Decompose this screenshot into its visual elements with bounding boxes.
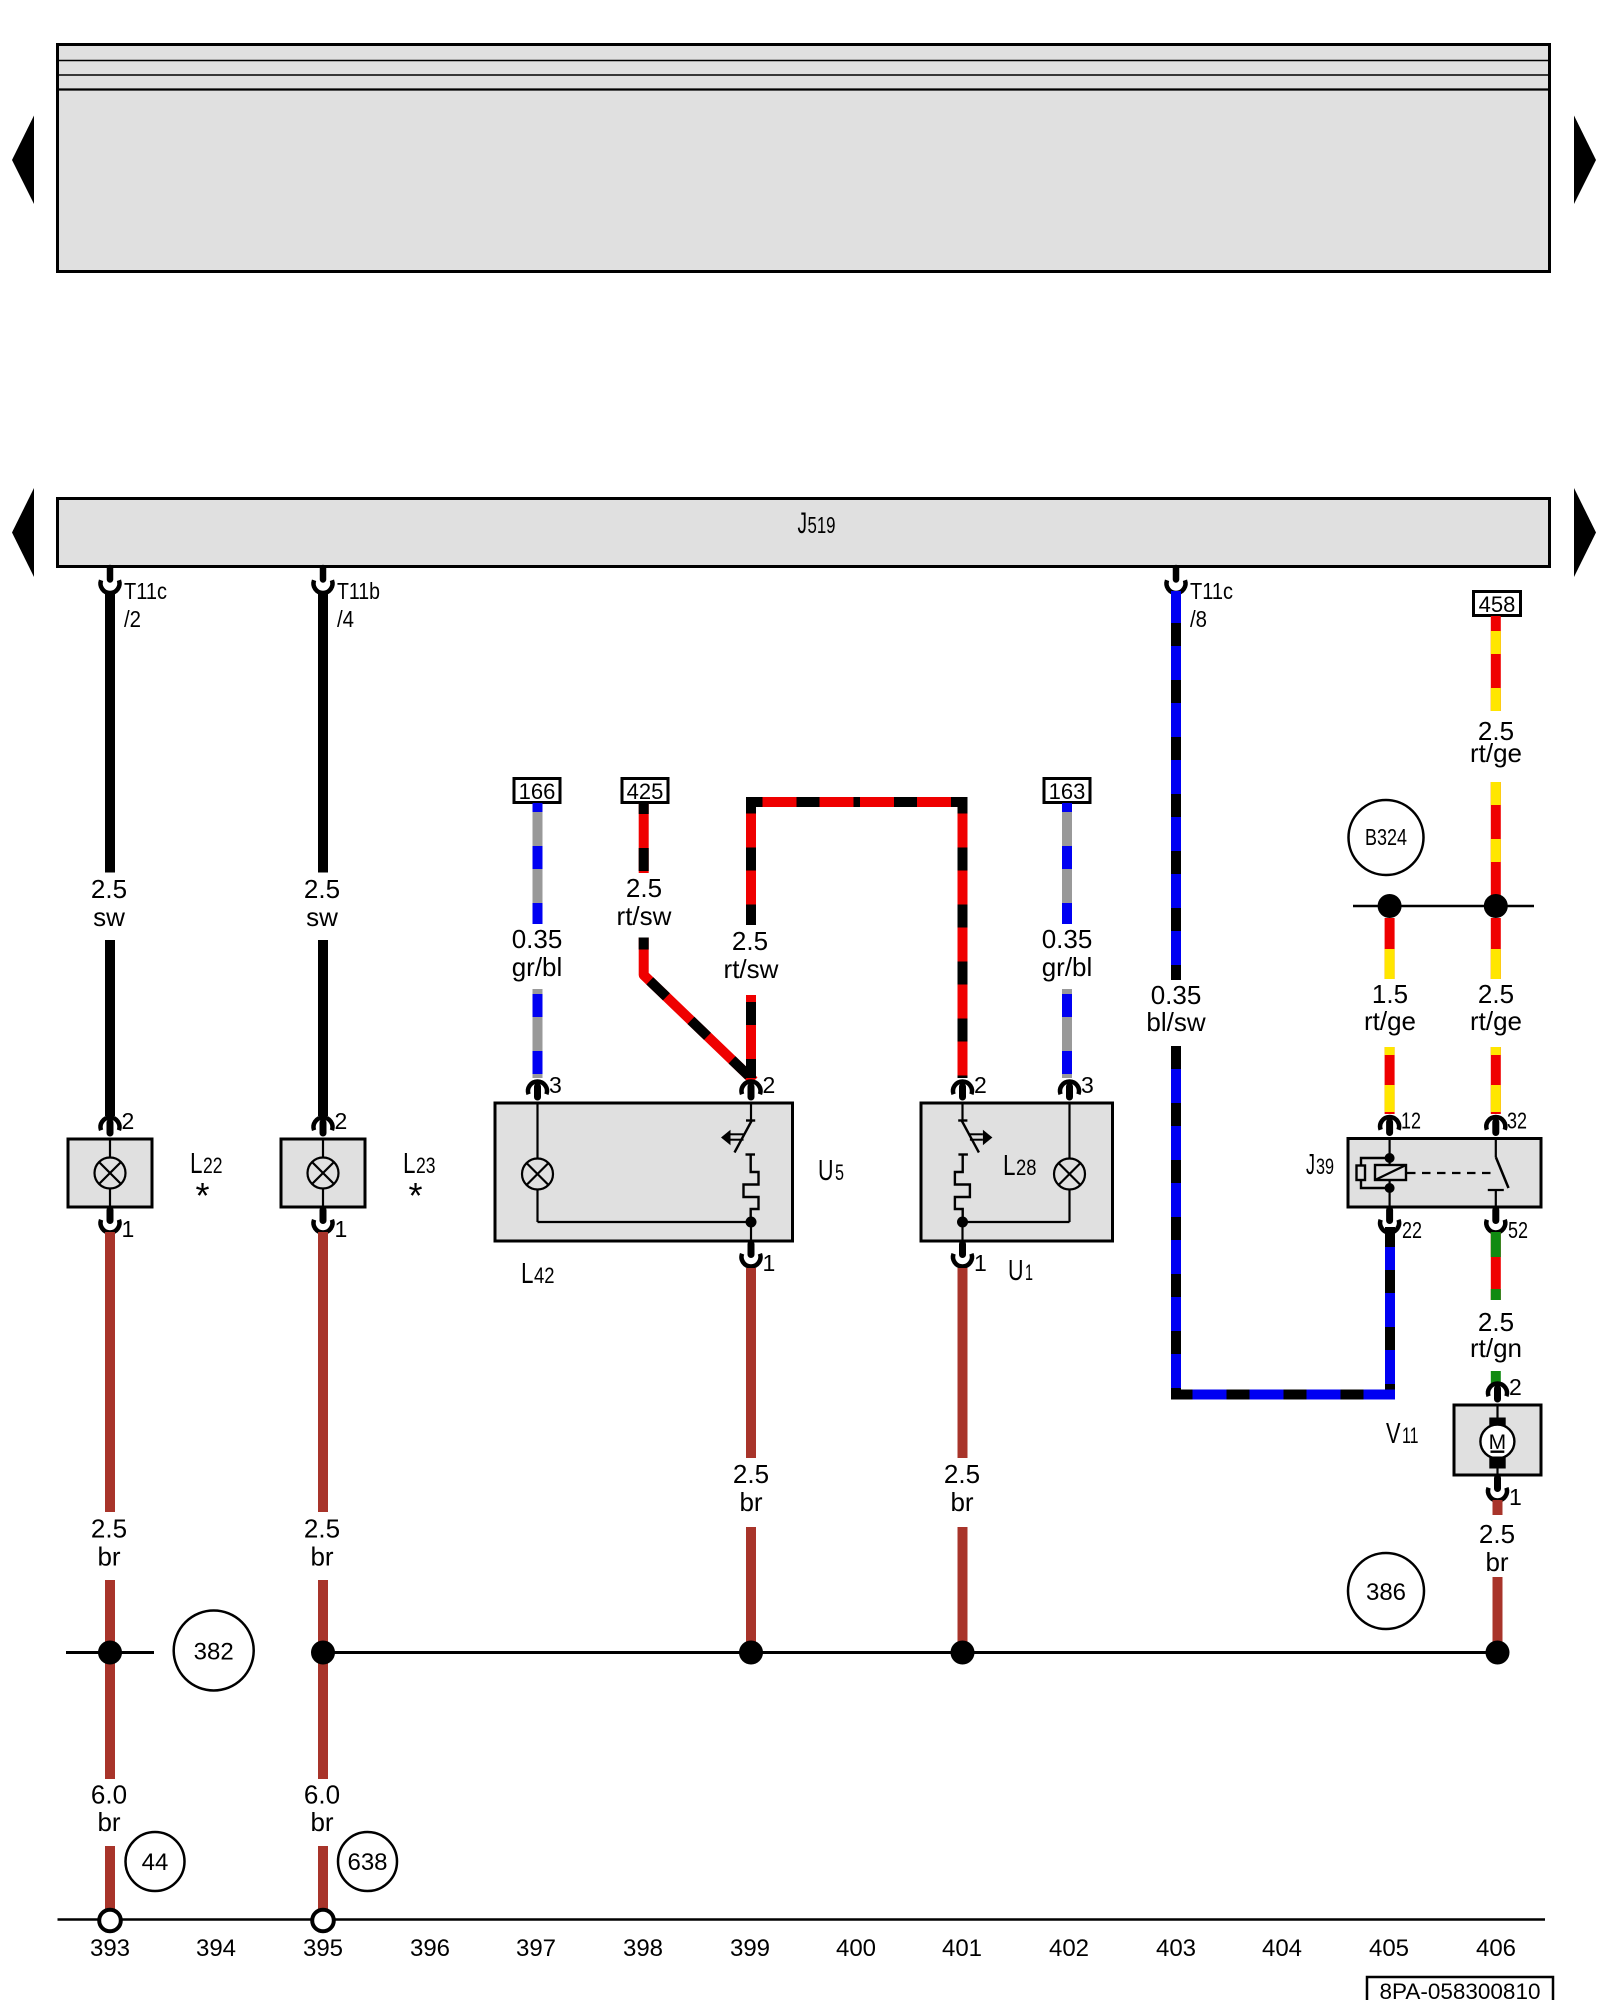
connector T11b/4 at bus <box>314 568 381 632</box>
wire 2.5 rt/sw loop U5 pin2 lower leg <box>724 926 779 1078</box>
svg-text:1: 1 <box>1509 1484 1522 1510</box>
connector T11c/8 at bus <box>1167 568 1234 632</box>
svg-text:1: 1 <box>122 1216 135 1242</box>
node 44 <box>126 1832 185 1891</box>
svg-text:44: 44 <box>142 1849 169 1876</box>
wire 2.5 br from V11 pin1 <box>1479 1500 1515 1652</box>
U1 internal wire <box>963 1221 1070 1223</box>
U1 pin 1 <box>953 1244 987 1276</box>
svg-text:1: 1 <box>1025 1260 1033 1285</box>
V11 pin 2 <box>1488 1374 1522 1400</box>
svg-text:3: 3 <box>549 1072 562 1098</box>
diagram number box <box>1367 1977 1553 2000</box>
svg-text:396: 396 <box>410 1935 450 1962</box>
svg-text:/2: /2 <box>124 606 141 632</box>
svg-text:gr/bl: gr/bl <box>512 952 563 982</box>
page arrow right header <box>1574 116 1596 205</box>
svg-text:1: 1 <box>974 1250 987 1276</box>
svg-text:2: 2 <box>974 1072 987 1098</box>
svg-text:2: 2 <box>122 1108 135 1134</box>
svg-text:br: br <box>950 1487 973 1517</box>
svg-text:393: 393 <box>90 1935 130 1962</box>
svg-text:L: L <box>521 1258 534 1290</box>
track baseline <box>58 1918 1546 1921</box>
wire 2.5 br from U5 pin1 <box>733 1268 769 1652</box>
U5 internal junction <box>746 1217 757 1228</box>
svg-text:2: 2 <box>1509 1374 1522 1400</box>
wire 2.5 br from U1 pin1 <box>944 1268 980 1652</box>
svg-text:L: L <box>1003 1150 1016 1182</box>
boxed node 425 <box>622 779 668 805</box>
svg-text:404: 404 <box>1262 1935 1302 1962</box>
wire 1.5 rt/ge to J39 pin12 <box>1364 918 1416 1114</box>
U5 pin 3 <box>528 1072 562 1098</box>
track numbers <box>90 1935 1516 1962</box>
wire 2.5 rt/ge from 458 <box>1470 616 1522 906</box>
J39 actuation dashed link <box>1407 1172 1497 1174</box>
junction dot 406 <box>1486 1641 1510 1665</box>
svg-text:br: br <box>310 1807 333 1837</box>
lighter unit U5 / L42 box <box>495 1103 793 1241</box>
junction dot 393 <box>98 1641 122 1665</box>
svg-text:400: 400 <box>836 1935 876 1962</box>
L22 pin 2 <box>101 1108 135 1134</box>
svg-text:406: 406 <box>1476 1935 1516 1962</box>
svg-text:2.5: 2.5 <box>733 1459 769 1489</box>
svg-text:403: 403 <box>1156 1935 1196 1962</box>
svg-text:U: U <box>818 1155 834 1187</box>
svg-text:2: 2 <box>763 1072 776 1098</box>
connector T11c/2 at bus <box>101 568 168 632</box>
svg-text:T11b: T11b <box>337 578 380 604</box>
svg-text:2.5: 2.5 <box>91 874 127 904</box>
svg-text:5: 5 <box>835 1160 844 1185</box>
svg-text:638: 638 <box>347 1849 387 1876</box>
J39 coil <box>1357 1139 1407 1208</box>
svg-text:2.5: 2.5 <box>626 873 662 903</box>
svg-text:rt/sw: rt/sw <box>617 901 672 931</box>
svg-text:sw: sw <box>306 902 338 932</box>
wire 2.5 rt/sw from 425 to U5 pin2 <box>617 803 754 1081</box>
U5 lighter element symbol <box>721 1103 759 1222</box>
wire 0.35 gr/bl from 163 to L28 pin3 <box>1042 803 1093 1078</box>
svg-text:rt/sw: rt/sw <box>724 954 779 984</box>
svg-text:394: 394 <box>196 1935 236 1962</box>
junction line B324 <box>1353 905 1534 908</box>
node 638 <box>338 1832 397 1891</box>
svg-text:2.5: 2.5 <box>91 1514 127 1544</box>
wire 2.5 rt/gn from J39 pin52 to V11 <box>1470 1232 1522 1384</box>
svg-text:br: br <box>97 1542 120 1572</box>
svg-text:39: 39 <box>1316 1154 1334 1179</box>
U1 pin 3 <box>1060 1072 1094 1098</box>
lamp L22 <box>68 1139 152 1207</box>
wire 2.5 rt/sw loop from U5 pin2 to L28 pin2 <box>751 802 963 1078</box>
junction dot right <box>1484 894 1508 918</box>
junction dot 395 <box>311 1641 335 1665</box>
header panel <box>58 45 1550 272</box>
svg-text:0.35: 0.35 <box>512 924 563 954</box>
page arrow right bus <box>1574 488 1596 577</box>
boxed node 458 <box>1474 592 1521 618</box>
svg-text:402: 402 <box>1049 1935 1089 1962</box>
svg-text:gr/bl: gr/bl <box>1042 952 1093 982</box>
svg-text:rt/ge: rt/ge <box>1470 1006 1522 1036</box>
control unit J519 bus bar <box>58 499 1550 567</box>
svg-text:*: * <box>408 1175 422 1216</box>
motor V11 box <box>1454 1405 1541 1475</box>
junction dot left <box>1378 894 1402 918</box>
svg-text:0.35: 0.35 <box>1042 924 1093 954</box>
svg-text:52: 52 <box>1508 1217 1528 1243</box>
svg-text:2.5: 2.5 <box>944 1459 980 1489</box>
svg-text:bl/sw: bl/sw <box>1146 1007 1205 1037</box>
svg-text:28: 28 <box>1016 1155 1037 1180</box>
L23 pin 1 <box>314 1210 348 1242</box>
ground symbol 393 <box>99 1910 121 1932</box>
V11 pin 1 <box>1488 1478 1522 1510</box>
J39 pin 52 <box>1486 1210 1528 1243</box>
junction dot 399 <box>739 1641 763 1665</box>
svg-text:1: 1 <box>335 1216 348 1242</box>
J39 switch contact <box>1488 1139 1509 1208</box>
svg-text:0.35: 0.35 <box>1151 980 1202 1010</box>
wire 2.5 sw to L22 <box>91 591 127 1116</box>
svg-text:2.5: 2.5 <box>1479 1519 1515 1549</box>
page arrow left bus <box>12 488 34 577</box>
node 386 <box>1348 1553 1424 1629</box>
wire 0.35 bl/sw from T11c/8 <box>1146 591 1395 1395</box>
svg-text:1.5: 1.5 <box>1372 979 1408 1009</box>
J39 pin 22 <box>1380 1210 1422 1243</box>
svg-text:42: 42 <box>534 1263 555 1288</box>
boxed node 163 <box>1044 779 1090 805</box>
node 382 <box>174 1611 254 1691</box>
svg-text:J: J <box>1306 1149 1315 1181</box>
svg-text:458: 458 <box>1479 592 1516 617</box>
svg-text:6.0: 6.0 <box>304 1780 340 1810</box>
svg-text:/8: /8 <box>1190 606 1207 632</box>
svg-text:386: 386 <box>1366 1579 1406 1606</box>
svg-text:2.5: 2.5 <box>1478 979 1514 1009</box>
svg-text:398: 398 <box>623 1935 663 1962</box>
lamp L23 <box>281 1139 365 1207</box>
svg-text:rt/gn: rt/gn <box>1470 1333 1522 1363</box>
U5 pin 1 <box>742 1244 776 1276</box>
svg-text:B324: B324 <box>1365 824 1407 850</box>
U1 lamp symbol L28 <box>1054 1103 1085 1222</box>
page arrow left header <box>12 116 34 205</box>
svg-text:T11c: T11c <box>1190 578 1233 604</box>
svg-text:425: 425 <box>627 779 664 804</box>
svg-text:3: 3 <box>1081 1072 1094 1098</box>
U5 lamp symbol L42 <box>522 1103 553 1222</box>
node B324 <box>1349 800 1424 875</box>
wire 2.5/6.0 br from L23 pin1 to ground 395 <box>304 1232 340 1910</box>
svg-text:395: 395 <box>303 1935 343 1962</box>
wire 2.5/6.0 br from L22 pin1 to ground 393 <box>91 1232 127 1910</box>
svg-text:2: 2 <box>335 1108 348 1134</box>
svg-text:2.5: 2.5 <box>732 926 768 956</box>
svg-text:V: V <box>1386 1418 1401 1450</box>
U1 lighter element symbol <box>955 1103 993 1222</box>
svg-text:T11c: T11c <box>124 578 167 604</box>
boxed node 166 <box>514 779 560 805</box>
svg-text:12: 12 <box>1401 1108 1421 1134</box>
svg-text:rt/ge: rt/ge <box>1470 738 1522 768</box>
wire 2.5 sw to L23 <box>304 591 340 1116</box>
wire 0.35 gr/bl from 166 to U5 pin3 <box>512 803 563 1078</box>
junction dot 401 <box>951 1641 975 1665</box>
svg-text:J: J <box>798 507 808 540</box>
J39 pin 12 <box>1380 1108 1421 1134</box>
svg-text:397: 397 <box>516 1935 556 1962</box>
svg-text:399: 399 <box>730 1935 770 1962</box>
L22 pin 1 <box>101 1210 135 1242</box>
ground junction line 382 right <box>318 1651 1498 1654</box>
svg-text:br: br <box>97 1807 120 1837</box>
U1 pin 2 <box>953 1072 987 1098</box>
U5 internal wire <box>538 1221 752 1223</box>
ground junction line 382 left <box>66 1651 154 1654</box>
svg-text:2.5: 2.5 <box>304 1514 340 1544</box>
svg-text:1: 1 <box>763 1250 776 1276</box>
svg-text:32: 32 <box>1507 1108 1527 1134</box>
svg-text:405: 405 <box>1369 1935 1409 1962</box>
svg-text:br: br <box>1485 1547 1508 1577</box>
svg-text:rt/ge: rt/ge <box>1364 1006 1416 1036</box>
U5 pin 2 <box>741 1072 775 1098</box>
svg-text:166: 166 <box>519 779 556 804</box>
svg-text:*: * <box>195 1175 209 1216</box>
svg-text:2.5: 2.5 <box>304 874 340 904</box>
lamp unit U1 / L28 box <box>921 1103 1113 1241</box>
svg-text:519: 519 <box>808 512 836 538</box>
svg-text:11: 11 <box>1402 1423 1419 1448</box>
ground symbol 395 <box>312 1910 334 1932</box>
svg-text:sw: sw <box>93 902 125 932</box>
svg-text:22: 22 <box>1402 1217 1422 1243</box>
svg-text:401: 401 <box>942 1935 982 1962</box>
U1 internal junction <box>957 1217 968 1228</box>
svg-text:br: br <box>739 1487 762 1517</box>
svg-text:382: 382 <box>194 1639 234 1666</box>
svg-text:br: br <box>310 1542 333 1572</box>
relay J39 box <box>1348 1139 1541 1208</box>
svg-text:6.0: 6.0 <box>91 1780 127 1810</box>
svg-text:163: 163 <box>1049 779 1086 804</box>
svg-text:U: U <box>1008 1255 1024 1287</box>
L23 pin 2 <box>314 1108 348 1134</box>
svg-text:8PA-058300810: 8PA-058300810 <box>1380 1979 1541 2000</box>
J39 pin 32 <box>1486 1108 1527 1134</box>
wire 2.5 rt/ge to J39 pin32 <box>1470 918 1522 1114</box>
svg-text:/4: /4 <box>337 606 354 632</box>
